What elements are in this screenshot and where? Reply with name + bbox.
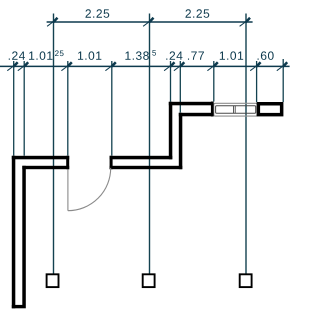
dim text 2.25 (right) bbox=[185, 9, 209, 18]
window symbol bbox=[214, 103, 258, 116]
dim text .60 bbox=[258, 51, 274, 60]
witness line w7 bbox=[213, 61, 215, 102]
wall: left vertical outer stroke bbox=[12, 156, 16, 308]
dim text 1.38 bbox=[125, 51, 148, 60]
door swing arc bbox=[68, 168, 111, 211]
wall: left vertical inner stroke bbox=[22, 166, 26, 305]
witness line w2 bbox=[23, 61, 25, 156]
wall: top horizontal top stroke bbox=[169, 102, 214, 106]
dimension line row2 bbox=[0, 65, 290, 67]
column marker B bbox=[143, 274, 155, 287]
ticks row2 bbox=[7, 62, 287, 70]
witness line w3 bbox=[67, 61, 69, 156]
dim text .24 bbox=[9, 51, 25, 59]
wall: step left stroke bbox=[169, 102, 173, 160]
witness line w6 bbox=[179, 61, 181, 113]
dim text 1.01 (door) bbox=[78, 51, 101, 60]
wall: top horizontal bottom stroke bbox=[179, 113, 214, 117]
column marker A bbox=[47, 274, 59, 287]
dimension line row1 bbox=[47, 21, 253, 23]
witness line w9 bbox=[282, 59, 284, 102]
wall: left vertical bottom cap bbox=[12, 305, 26, 308]
witness line w1 bbox=[13, 61, 15, 156]
column marker C bbox=[240, 274, 252, 287]
ticks row1 bbox=[47, 18, 250, 27]
wall: bottom-middle bottom stroke bbox=[110, 166, 183, 169]
wall: window left cap bbox=[211, 102, 214, 117]
dim text .77 bbox=[188, 52, 204, 60]
grid line B (x=149.5) bbox=[149, 14, 151, 274]
witness line w4 bbox=[111, 61, 113, 156]
witness line w8 bbox=[256, 61, 258, 102]
grid line C (x=246) bbox=[245, 14, 247, 274]
wall: left door jamb cap bbox=[66, 156, 69, 169]
dim text .24 (step) bbox=[166, 51, 182, 59]
door leaf bbox=[67, 170, 69, 211]
wall: bottom-middle top stroke bbox=[110, 156, 173, 160]
witness line w5 bbox=[170, 61, 172, 102]
wall: right pier bbox=[257, 102, 284, 116]
dim text 1.01 (window) bbox=[220, 51, 243, 60]
wall: left horizontal top stroke bbox=[12, 156, 69, 160]
dim sup 5 bbox=[152, 50, 156, 56]
dim text 1.01 bbox=[29, 51, 52, 60]
wall: left horizontal bottom stroke bbox=[22, 166, 69, 169]
wall: right door jamb cap bbox=[110, 156, 113, 169]
grid line A (x=53.5) bbox=[53, 14, 55, 274]
dim text 2.25 (left) bbox=[85, 9, 109, 18]
wall: step right stroke bbox=[179, 113, 183, 169]
dim sup 25 bbox=[55, 50, 64, 56]
